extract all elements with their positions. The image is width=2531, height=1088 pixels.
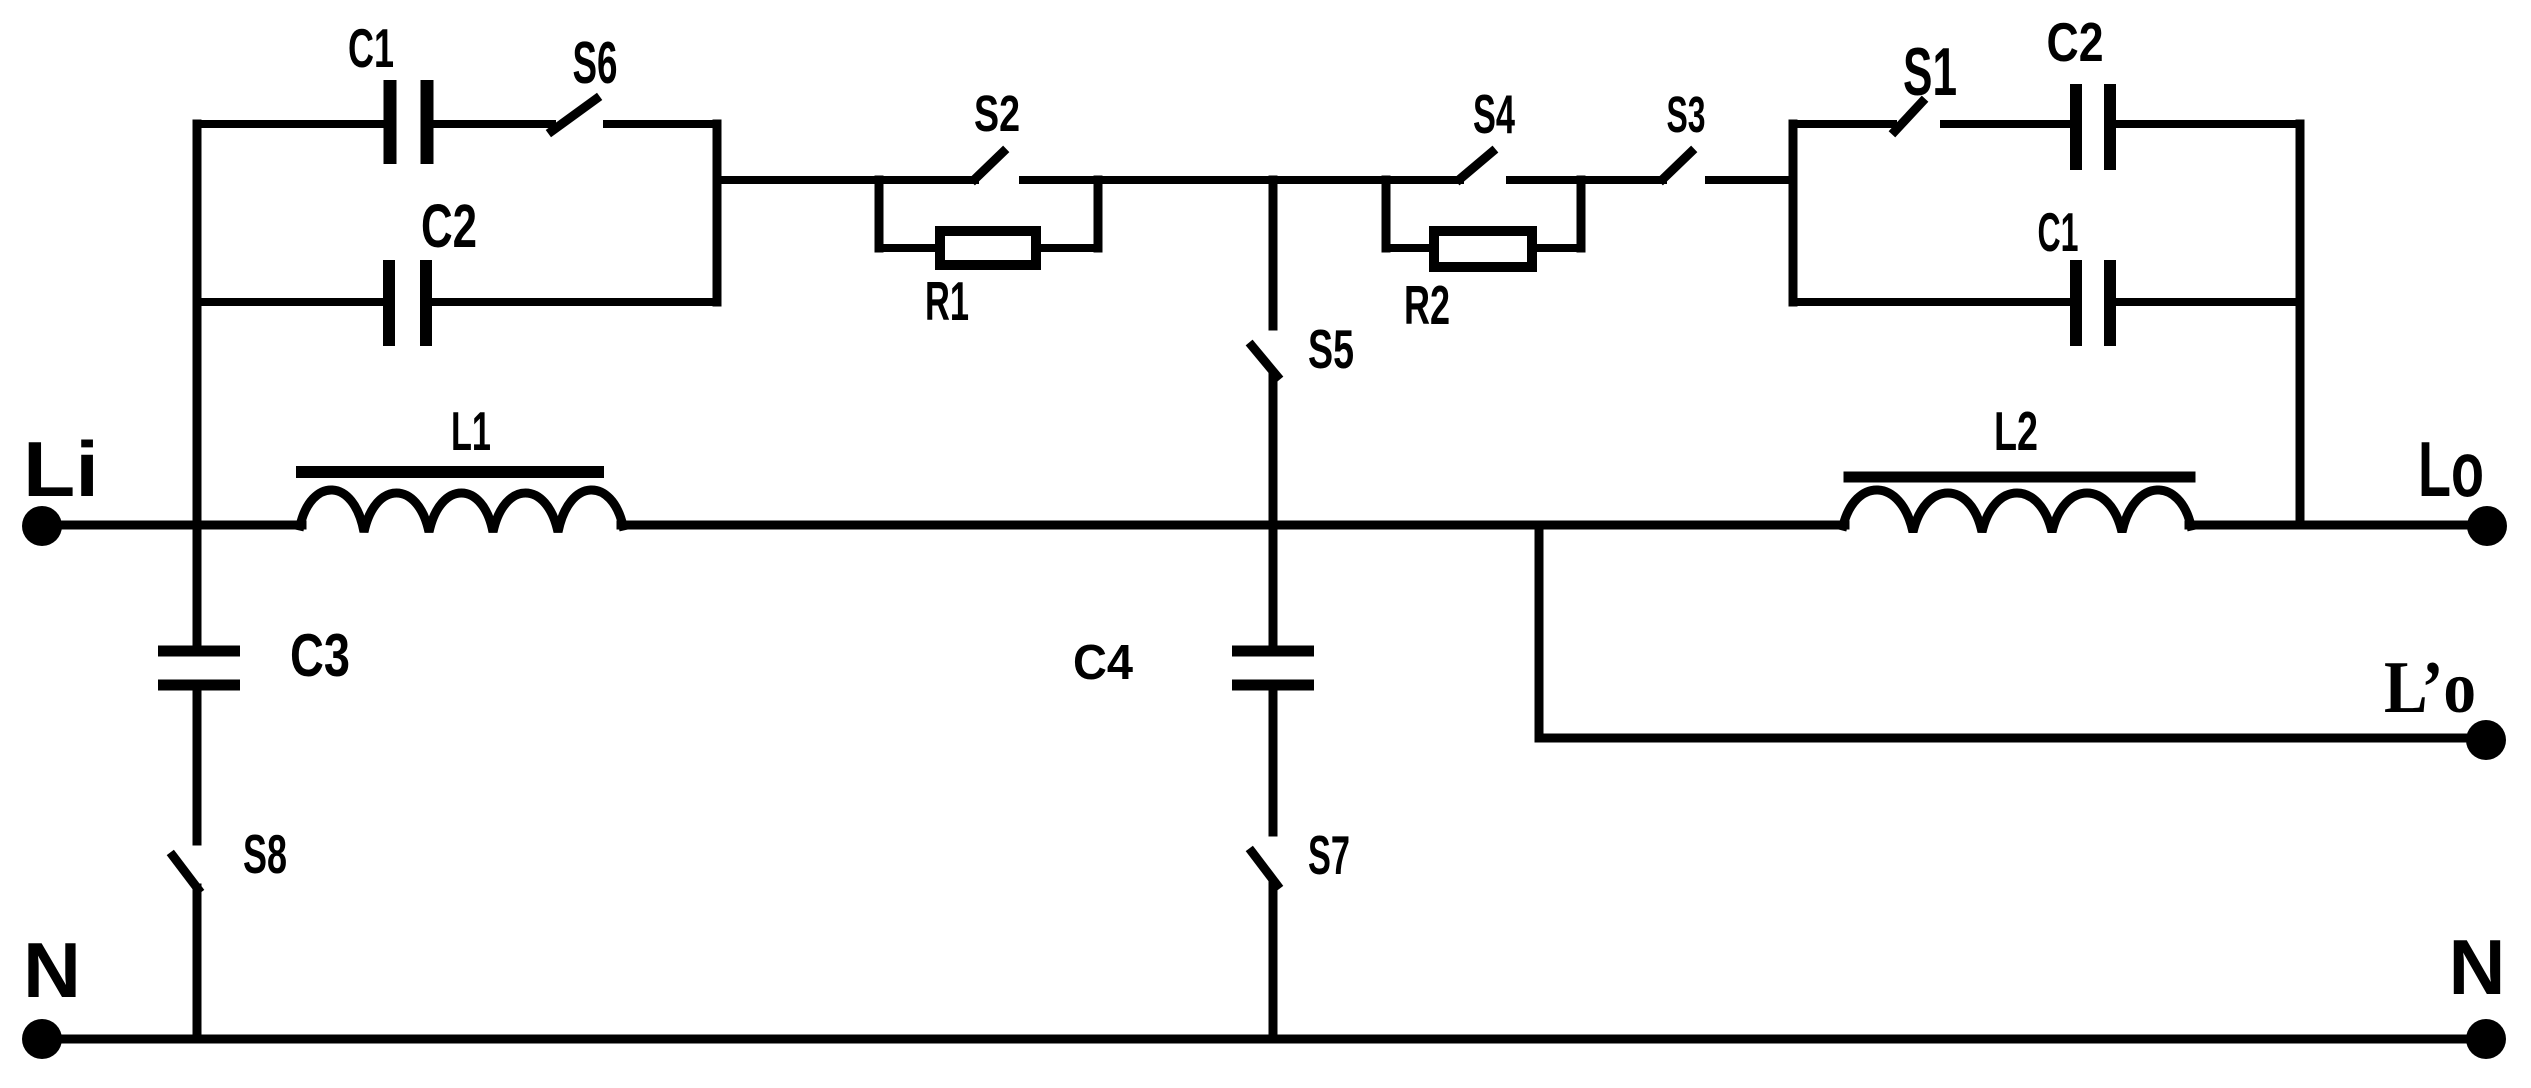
wire: right box left vertical xyxy=(1789,124,1798,302)
svg-text:S5: S5 xyxy=(1308,318,1354,380)
wire: L'o branch vertical xyxy=(1535,525,1544,738)
capacitor C2 (top-left) plates xyxy=(389,260,426,346)
wire: bottom N line xyxy=(42,1035,2486,1044)
wire: S7 to N line xyxy=(1269,885,1278,1039)
svg-text:S7: S7 xyxy=(1308,824,1350,886)
wire: R1 box left vertical xyxy=(875,180,884,248)
svg-text:S6: S6 xyxy=(573,30,618,96)
wire: right box right vertical down to main line xyxy=(2296,124,2305,525)
svg-text:L’o: L’o xyxy=(2384,647,2476,729)
node Li terminal dot xyxy=(22,506,62,546)
svg-text:R2: R2 xyxy=(1404,274,1450,336)
svg-text:Lo: Lo xyxy=(2418,425,2484,513)
node N left terminal dot xyxy=(22,1019,62,1059)
switch S8 arm xyxy=(173,856,198,889)
switch S2 arm xyxy=(975,152,1003,179)
wire: S1 fixed contact to C2 xyxy=(1944,120,2070,128)
switch S4 arm xyxy=(1460,152,1492,179)
wire: top-left box right vertical xyxy=(713,124,722,302)
wire: right box top lead to S1 xyxy=(1793,120,1893,128)
svg-text:S1: S1 xyxy=(1903,34,1957,110)
svg-text:L1: L1 xyxy=(451,400,491,462)
wire: S8 to N line xyxy=(193,888,202,1039)
resistor R2 xyxy=(1434,231,1532,267)
switch S7 arm xyxy=(1252,852,1277,885)
svg-text:C2: C2 xyxy=(2047,11,2104,73)
wire: R2 left lead xyxy=(1386,244,1428,252)
wire: R1 box right vertical xyxy=(1094,180,1103,248)
wire: S5 to C4 crossing main line xyxy=(1269,376,1278,646)
svg-text:C1: C1 xyxy=(348,17,394,79)
node L'o terminal dot xyxy=(2466,720,2506,760)
svg-text:C4: C4 xyxy=(1073,636,1133,690)
svg-text:S2: S2 xyxy=(974,85,1020,142)
wire: C1 to S6 xyxy=(431,120,552,128)
switch S1 arm xyxy=(1895,102,1922,131)
switch S5 arm xyxy=(1252,346,1277,376)
wire: C2 to box right vertical xyxy=(431,298,717,306)
svg-text:S3: S3 xyxy=(1667,86,1706,143)
wire: L'o branch horizontal xyxy=(1539,734,2486,743)
svg-text:C2: C2 xyxy=(421,192,477,260)
capacitor C1 (top-left) plates xyxy=(390,80,427,164)
wire: top-left box bottom (C2 branch) xyxy=(197,298,384,306)
wire: left vertical branch upper (box corner to C3) xyxy=(193,124,202,646)
wire: R2 right lead xyxy=(1539,244,1581,252)
wire: R2 box left vertical xyxy=(1382,180,1391,248)
wire: C4 to S7 xyxy=(1269,691,1278,832)
switch S3 arm xyxy=(1663,152,1691,179)
svg-text:S8: S8 xyxy=(243,823,287,885)
wire: C3 to S8 xyxy=(193,691,202,841)
resistor R1 xyxy=(940,231,1036,265)
wire: R1 left lead xyxy=(879,244,935,252)
L1 overbar xyxy=(302,466,598,478)
capacitor C3 plates xyxy=(158,651,240,685)
wire: C1 to right box right vertical xyxy=(2116,298,2300,306)
node N right terminal dot xyxy=(2466,1019,2506,1059)
wire: R1 right lead xyxy=(1041,244,1098,252)
svg-text:C3: C3 xyxy=(290,622,350,689)
wire: R2 box right vertical xyxy=(1577,180,1586,248)
svg-text:S4: S4 xyxy=(1473,83,1515,145)
wire: C2 to right box corner xyxy=(2116,120,2300,128)
svg-text:N: N xyxy=(2449,923,2506,1011)
wire: S2 fixed contact to S4 xyxy=(1023,176,1460,184)
svg-text:Li: Li xyxy=(23,425,99,513)
switch S6 arm xyxy=(552,99,596,131)
wire: middle horizontal to S2 xyxy=(717,176,975,184)
wire: right box bottom lead to C1 xyxy=(1793,298,2070,306)
wire: S6 fixed contact to box corner xyxy=(607,120,717,128)
svg-text:N: N xyxy=(23,926,81,1014)
capacitor C4 plates xyxy=(1232,651,1314,685)
capacitor C2 (right) plates xyxy=(2076,84,2110,170)
svg-text:C1: C1 xyxy=(2038,201,2079,263)
inductor L2 winding xyxy=(1843,490,2191,532)
node Lo terminal dot xyxy=(2467,506,2507,546)
wire: S4 fixed contact xyxy=(1510,176,1663,184)
svg-text:L2: L2 xyxy=(1994,400,2038,462)
svg-text:R1: R1 xyxy=(925,270,969,332)
wire: S3 fixed contact to right box xyxy=(1709,176,1793,184)
L2 overbar xyxy=(1849,472,2190,483)
wire: center vertical upper (middle wire to S5) xyxy=(1269,180,1278,326)
capacitor C1 (right) plates xyxy=(2076,260,2110,346)
wire: top-left box top xyxy=(197,120,384,128)
wire: main horizontal line Li to Lo xyxy=(42,521,2487,530)
inductor L1 winding xyxy=(300,490,623,532)
